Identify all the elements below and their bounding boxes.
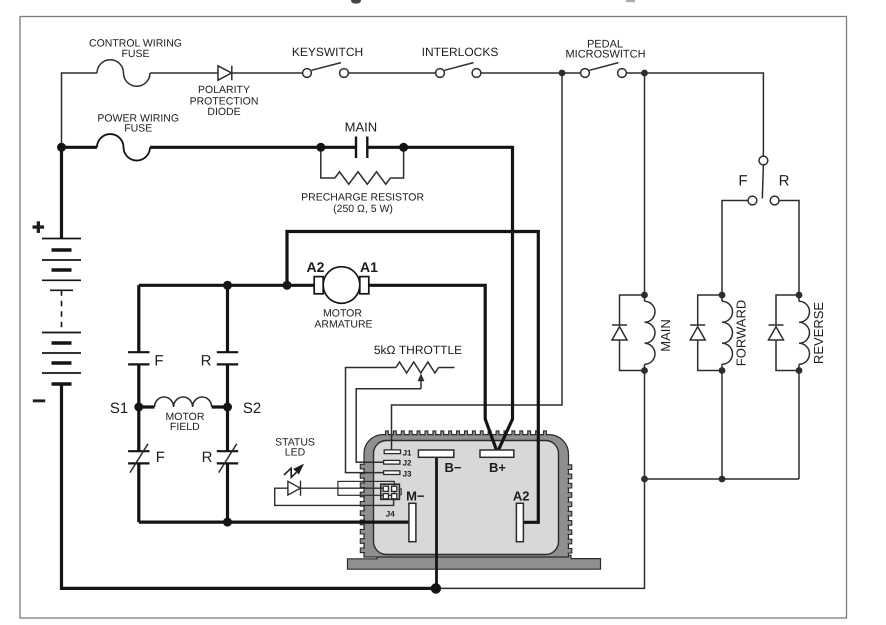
power wiring fuse (97, 134, 150, 161)
wire: pedal microswitch to F/R selector corner (627, 73, 764, 156)
svg-text:R: R (202, 449, 213, 466)
wire: main coil bottom to bus (644, 371, 646, 480)
svg-text:(250 Ω, 5 W): (250 Ω, 5 W) (333, 203, 393, 215)
svg-text:S1: S1 (110, 400, 128, 417)
wire: throttle right lead (439, 367, 455, 369)
svg-text:J3: J3 (403, 469, 412, 478)
svg-text:B+: B+ (489, 460, 506, 475)
throttle wiper arrow (420, 380, 422, 389)
svg-text:MICROSWITCH: MICROSWITCH (565, 48, 645, 60)
svg-text:5kΩ THROTTLE: 5kΩ THROTTLE (374, 343, 462, 357)
wire: fuse to diode (150, 72, 218, 74)
pedal microswitch (581, 63, 627, 78)
svg-text:B−: B− (445, 460, 462, 475)
wire: bus down to B- node (437, 479, 645, 588)
terminal J2 (384, 460, 400, 464)
svg-text:PRECHARGE RESISTOR: PRECHARGE RESISTOR (301, 191, 424, 203)
precharge resistor R (zigzag) (335, 172, 390, 184)
svg-text:KEYSWITCH: KEYSWITCH (292, 45, 363, 59)
svg-text:J1: J1 (403, 448, 412, 457)
NC contact slashes (130, 444, 237, 473)
contact R (upper, field) (217, 351, 238, 353)
keyswitch S1a (303, 63, 349, 78)
forward contactor coil suppression diode (690, 295, 722, 371)
controller inner panel (374, 441, 559, 555)
main contactor tips (356, 137, 367, 159)
wire: battery + feed (62, 147, 437, 588)
reverse contactor coil suppression diode (769, 295, 800, 371)
wire: main coil feed down from pedal junction (644, 73, 646, 295)
main contactor coil (644, 295, 646, 301)
svg-text:J2: J2 (403, 459, 412, 468)
wire: B- cable (435, 457, 438, 588)
svg-text:F: F (738, 173, 747, 190)
polarity protection diode D1 (218, 66, 232, 80)
terminal B+ (480, 450, 514, 457)
LED emission flash arrow (284, 465, 302, 477)
forward contactor coil (721, 295, 723, 301)
wire: field right leg S2 (226, 285, 229, 522)
svg-text:A2: A2 (307, 259, 325, 275)
wire: fuse to main contact (150, 146, 356, 149)
svg-text:FIELD: FIELD (170, 421, 200, 433)
svg-text:J4: J4 (386, 509, 395, 518)
svg-text:R: R (201, 353, 212, 370)
battery + terminal label (33, 225, 45, 228)
wire: reverse coil bottom to bus (798, 371, 800, 480)
battery - terminal label (33, 399, 45, 402)
wire: throttle left lead to J3 (346, 368, 397, 473)
F/R selector terminals (748, 156, 779, 205)
wire: field left leg S1 (137, 285, 140, 522)
svg-text:DIODE: DIODE (207, 106, 240, 118)
svg-text:S2: S2 (243, 400, 261, 417)
svg-text:R: R (779, 173, 790, 190)
svg-text:FORWARD: FORWARD (734, 300, 749, 366)
precharge resistor branch (321, 147, 404, 184)
terminal A2 (516, 503, 523, 541)
controller mounting flange (348, 555, 601, 569)
svg-text:MAIN: MAIN (658, 319, 673, 352)
wire: keyswitch to interlocks (349, 72, 436, 74)
reverse contactor coil (798, 295, 800, 301)
wire: LED cathode to J4 (301, 487, 384, 489)
wire: coil return bus (645, 478, 800, 480)
svg-text:INTERLOCKS: INTERLOCKS (422, 45, 499, 59)
LED harness connector box (338, 481, 394, 495)
battery B1 (33, 221, 82, 402)
interlocks switch (436, 63, 481, 78)
svg-text:FUSE: FUSE (121, 48, 149, 60)
wire: forward coil bottom to bus (721, 371, 723, 480)
svg-text:LED: LED (285, 446, 306, 458)
terminal J1 (384, 450, 401, 475)
contact F (upper, field) (128, 352, 238, 463)
wire: armature A2 loop to controller A2 (287, 232, 538, 523)
wire: battery - to bottom bus (62, 384, 437, 588)
terminal B- (409, 450, 524, 542)
wire: main contact to B+ drop (367, 147, 512, 449)
svg-text:FUSE: FUSE (124, 123, 152, 135)
wire: KSI line down to J1 (392, 73, 563, 450)
battery dashed continuation (61, 290, 63, 332)
cut-off text remnant marks (351, 0, 361, 4)
controller housing (heatsink body) (348, 431, 601, 569)
wire: armature line (139, 284, 314, 287)
svg-text:A1: A1 (360, 259, 378, 275)
wire: throttle wiper to J2 (356, 389, 421, 462)
wire: interlocks to pedal microswitch (481, 72, 581, 74)
wire: control line from battery+ to keyswitch etc. (62, 60, 800, 589)
wire: LED anode loop to J4 (275, 488, 394, 505)
wire: power line with fuse (62, 146, 98, 149)
control wiring fuse (97, 60, 150, 86)
svg-text:MAIN: MAIN (345, 119, 378, 134)
svg-text:ARMATURE: ARMATURE (314, 318, 372, 330)
svg-text:M−: M− (406, 488, 425, 503)
wire: diode to keyswitch (232, 72, 303, 74)
terminal J3 (384, 471, 400, 475)
node: pedal junction dots and coil nodes (559, 70, 803, 483)
connector J4 (381, 484, 401, 499)
wire: armature A1 to B+ (369, 285, 496, 449)
motor armature M (314, 267, 369, 304)
terminal M- (409, 503, 416, 541)
contact F (lower, NC) (128, 450, 149, 452)
wire: R contact to reverse coil (779, 201, 799, 296)
F/R selector blade (762, 165, 763, 199)
svg-text:A2: A2 (513, 488, 530, 503)
svg-text:F: F (156, 449, 165, 466)
svg-text:REVERSE: REVERSE (811, 302, 826, 364)
motor field winding (139, 405, 228, 408)
wire: field bottom to M- (139, 520, 409, 523)
LED diode symbol (288, 481, 300, 495)
status LED (275, 481, 394, 506)
throttle potentiometer 5k (346, 362, 455, 473)
contact R (lower, NC) (217, 450, 238, 452)
node dots (power) (57, 143, 441, 594)
svg-text:F: F (154, 353, 163, 370)
main contactor coil suppression diode (612, 295, 645, 371)
wire: F contact to forward coil (722, 201, 748, 296)
